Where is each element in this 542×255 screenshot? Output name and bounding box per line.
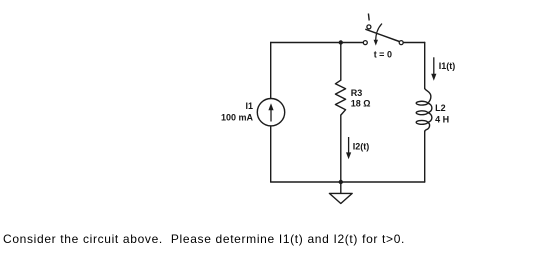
svg-text:t = 0: t = 0 xyxy=(374,50,392,60)
wire right rail upper xyxy=(424,43,426,89)
switch upper contact circle xyxy=(367,25,371,29)
switch blade xyxy=(365,29,399,41)
svg-text:I1: I1 xyxy=(245,101,253,111)
wire top rail right (switch right contact to right rail) xyxy=(403,42,424,44)
wire left rail upper xyxy=(270,43,272,99)
svg-text:I2(t): I2(t) xyxy=(353,142,370,152)
switch right contact circle xyxy=(399,41,403,45)
svg-text:18 Ω: 18 Ω xyxy=(351,99,371,109)
ground xyxy=(329,182,352,204)
switch left contact circle xyxy=(363,41,367,45)
svg-text:Consider the circuit above. P: Consider the circuit above. Please deter… xyxy=(3,232,405,246)
wire left rail lower xyxy=(270,126,272,182)
wire top rail left (node A: source to switch left contact) xyxy=(271,42,364,44)
current arrow I2(t) xyxy=(346,137,351,159)
wire right rail lower xyxy=(424,131,426,182)
svg-text:I1(t): I1(t) xyxy=(439,61,456,71)
svg-text:L2: L2 xyxy=(435,103,446,113)
switch upper terminal stub xyxy=(367,14,370,21)
current source I1 circle xyxy=(257,99,284,126)
svg-text:4 H: 4 H xyxy=(435,114,449,124)
resistor R3 zigzag xyxy=(335,80,345,115)
node bottom junction xyxy=(339,180,343,184)
inductor L2 coil xyxy=(416,88,432,131)
wire bottom rail xyxy=(271,181,425,183)
node top junction xyxy=(339,40,343,44)
svg-text:100 mA: 100 mA xyxy=(221,113,254,123)
current arrow I1(t) xyxy=(431,57,436,80)
switch motion arrow xyxy=(374,24,382,46)
current source I1 arrow xyxy=(268,103,273,121)
svg-text:R3: R3 xyxy=(351,88,363,98)
wire middle branch upper xyxy=(340,43,342,81)
wire middle branch lower xyxy=(340,115,342,182)
